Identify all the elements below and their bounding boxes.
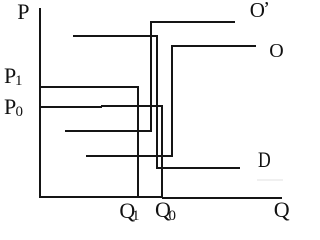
P axis (vertical) — [39, 8, 41, 197]
P1 price guide horizontal — [40, 86, 139, 88]
curve label O — [269, 41, 283, 61]
curve O' top horizontal segment — [150, 21, 235, 23]
Q0 quantity guide vertical — [161, 105, 163, 197]
curve label O' — [250, 0, 265, 21]
curve label D — [258, 149, 271, 171]
curve O top horizontal segment — [172, 45, 256, 47]
price label P1 — [4, 65, 16, 87]
middle curve top horizontal segment — [73, 35, 158, 37]
P0 price guide horizontal right part — [101, 105, 163, 107]
quantity label Q1 — [119, 200, 135, 222]
curve O vertical segment — [171, 45, 173, 157]
Q axis left segment — [39, 196, 163, 198]
Q1 quantity guide vertical — [137, 86, 139, 197]
curve D horizontal segment — [157, 167, 241, 169]
axis label Q — [274, 199, 290, 221]
faint erased line artifact — [257, 179, 283, 181]
axis label P — [17, 1, 29, 23]
P0 price guide horizontal left part — [40, 106, 102, 108]
middle curve vertical segment — [156, 35, 158, 169]
curve O lower horizontal segment — [86, 155, 172, 157]
price label P0 — [4, 96, 16, 118]
quantity label Q0 — [155, 199, 171, 221]
Q axis right segment — [162, 197, 282, 199]
curve O' vertical segment — [150, 21, 152, 132]
curve O' lower horizontal segment — [65, 130, 151, 132]
